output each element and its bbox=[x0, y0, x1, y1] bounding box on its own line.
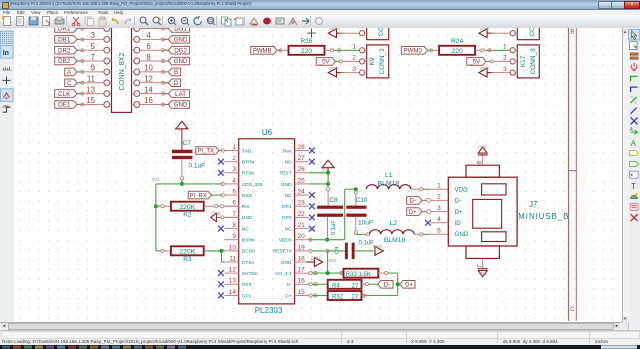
capacitor C10 bbox=[346, 206, 366, 209]
global label D- bbox=[378, 281, 393, 289]
capacitor C7 bbox=[172, 150, 193, 154]
wire from CONN_8X2 pin 12 to label D bbox=[140, 82, 169, 84]
K9 pin 2 circle bbox=[360, 59, 365, 64]
power symbol 3V3 (above C7) bbox=[176, 121, 188, 129]
CONN_8X2 pin 14 circle bbox=[134, 91, 140, 97]
J7 top tab bbox=[466, 165, 499, 177]
U6 left pin 10 (DCDn) bbox=[225, 250, 239, 252]
wire from label DR2 to CONN_8X2 pin 5 bbox=[77, 49, 104, 51]
ground symbol at K17 pin3 bbox=[479, 68, 487, 77]
wire from CONN_8X2 pin 2 to label DG1 bbox=[140, 28, 169, 30]
no-connect X at J7 pin4 ID bbox=[425, 220, 431, 226]
capacitor C8 bbox=[317, 206, 343, 209]
connector K17 CONN_3 body bbox=[517, 45, 539, 78]
junction pin17 / rail bbox=[326, 271, 330, 275]
global label D- at J7 pin2 bbox=[407, 197, 422, 205]
wire PWMB to R16 bbox=[277, 49, 281, 51]
J7 inner pad bottom bbox=[482, 232, 506, 242]
ground symbol at K16 pin3 bbox=[479, 29, 487, 38]
global label GND bbox=[168, 57, 189, 65]
U6 left pin 11 (CTSn) bbox=[225, 261, 239, 263]
J7 pin 3 D+ bbox=[430, 211, 448, 213]
CONN_8X2 pin 10 circle bbox=[134, 69, 140, 75]
power symbol 3V3 (at U6 pin26 TEST) bbox=[322, 160, 334, 168]
wire R4 to label D- bbox=[362, 283, 366, 285]
global label C bbox=[65, 79, 77, 87]
wire from CONN_8X2 pin 14 to label LAT bbox=[140, 93, 169, 95]
K17 pin 1 circle bbox=[510, 48, 515, 53]
wire U6 pin20 VDD5 to rail bbox=[309, 239, 345, 241]
menu bar bbox=[0, 10, 640, 16]
window title bar bbox=[0, 0, 640, 10]
U6 right pin 16 (D-) bbox=[295, 283, 309, 285]
U6 left pin 3 (RTSn) bbox=[225, 172, 239, 174]
U6 right pin 20 (VDD5) bbox=[295, 239, 309, 241]
op-amp U6 PL2303 body bbox=[239, 139, 295, 304]
J7 inner shell bbox=[473, 199, 502, 228]
U6 right pin 22 (GP0) bbox=[295, 216, 309, 218]
svg-text:A: A bbox=[631, 139, 637, 148]
U6 right pin 24 (NC) bbox=[295, 194, 309, 196]
resistor R16 220 bbox=[289, 46, 325, 55]
U6 right pin 21 (NC) bbox=[295, 228, 309, 230]
global label A bbox=[65, 68, 77, 76]
CONN_8X2 pin 9 circle bbox=[104, 69, 110, 75]
U6 left pin 2 (DTRn) bbox=[225, 161, 239, 163]
U6 left pin 14 (GP2) bbox=[225, 295, 239, 297]
svg-text:T: T bbox=[631, 182, 636, 191]
wire from CONN_8X2 pin 16 to label GND bbox=[140, 104, 169, 106]
vertical scrollbar bbox=[622, 28, 630, 322]
CONN_8X2 pin 1 circle bbox=[104, 26, 110, 32]
U6 left pin 5 (RXD) bbox=[225, 194, 239, 196]
wire 3V3 rail to U6 pin4 bbox=[156, 183, 223, 185]
resistor R33 1.5K bbox=[340, 272, 343, 275]
connector J7 MINIUSB_B body bbox=[448, 177, 517, 246]
global label _5V at K9 pin2 bbox=[316, 58, 335, 66]
junction at C8 bottom / pin20 rail bbox=[325, 238, 329, 242]
CONN_8X2 pin 16 circle bbox=[134, 102, 140, 108]
U6 left pin 8 (NC) bbox=[225, 228, 239, 230]
K17 pin 3 circle bbox=[510, 70, 515, 75]
U6 right pin 23 (GP1) bbox=[295, 205, 309, 207]
CONN_8X2 pin 13 circle bbox=[104, 91, 110, 97]
global label OE1 bbox=[55, 101, 77, 109]
U6 right pin 18 (GND) bbox=[295, 261, 309, 263]
wire R32 to D+ node bbox=[362, 295, 366, 297]
wire U6 pin25 to 3V3 rail bbox=[309, 183, 328, 185]
J7 inner pad top bbox=[482, 184, 506, 195]
global label GND bbox=[168, 36, 189, 44]
ground symbol at U6 pin7 bbox=[224, 216, 239, 218]
J7 pin 4 ID bbox=[430, 222, 448, 224]
wire rail corner up to L1 row bbox=[344, 189, 346, 240]
ground symbol at K8 pin3 bbox=[328, 29, 336, 38]
resistor R3 220K bbox=[156, 250, 161, 252]
wire R33 right to D+ node bbox=[378, 272, 384, 274]
K9 pin 3 circle bbox=[360, 70, 365, 75]
no-connect X on U6 pins 2,3,8,12,13,14 bbox=[218, 159, 224, 165]
wire R16 to K9 pin1 bbox=[325, 49, 331, 51]
wire L1 to J7 pin1 VDD bbox=[411, 188, 420, 190]
global label PI_RX bbox=[188, 191, 211, 199]
CONN_8X2 pin 11 circle bbox=[104, 80, 110, 86]
CONN_8X2 pin 8 circle bbox=[134, 58, 140, 64]
global label GND bbox=[168, 101, 189, 109]
connector J? CONN_8X2 body bbox=[112, 22, 132, 112]
toolbar bbox=[0, 15, 640, 29]
U6 right pin 27 (NC) bbox=[295, 161, 309, 163]
global label LAT bbox=[168, 90, 189, 98]
sheet frame border bbox=[568, 24, 570, 321]
ground symbol at K9 pin3 bbox=[328, 68, 336, 77]
wire from label OE1 to CONN_8X2 pin 15 bbox=[77, 104, 104, 106]
J7 pin6 shield to ground bbox=[482, 155, 484, 165]
CONN_8X2 pin 15 circle bbox=[104, 102, 110, 108]
wire U6 pin17 VO_3.3 to R33 bbox=[309, 272, 312, 275]
wire from CONN_8X2 pin 6 to label DG2 bbox=[140, 49, 169, 51]
U6 left pin 6 (RIn) bbox=[225, 205, 239, 207]
right toolbar strip bbox=[628, 28, 640, 330]
resistor R2 220K bbox=[156, 205, 161, 207]
CONN_8X2 pin 2 circle bbox=[134, 26, 140, 32]
wire from label CLK to CONN_8X2 pin 13 bbox=[77, 93, 104, 95]
resistor R24 220 bbox=[439, 46, 475, 55]
status bar bbox=[0, 330, 640, 346]
CONN_8X2 pin 4 circle bbox=[134, 37, 140, 43]
CONN_8X2 pin 3 circle bbox=[104, 37, 110, 43]
left toolbar strip bbox=[0, 28, 15, 322]
wire from label DR1 to CONN_8X2 pin 1 bbox=[77, 28, 104, 30]
inductor L2 BLM18 bbox=[366, 233, 369, 236]
K17 pin 2 circle bbox=[510, 59, 515, 64]
wire ground to K8 pin3 bbox=[341, 32, 345, 34]
CONN_8X2 pin 5 circle bbox=[104, 47, 110, 53]
global label PWM0 bbox=[401, 47, 427, 55]
wire 3V3 rail down to C8 bbox=[327, 173, 329, 184]
K8 pin 3 circle bbox=[360, 31, 365, 36]
wire R2 to U6 pin6 bbox=[204, 205, 215, 207]
junction 3V3 rail at R2 bbox=[154, 204, 158, 208]
resistor R32 27 bbox=[309, 294, 312, 297]
CONN_8X2 pin 6 circle bbox=[134, 47, 140, 53]
connector K16 CONN_3 body (cut at top) bbox=[517, 10, 539, 40]
U6 right pin 28 (Rev) bbox=[295, 150, 309, 152]
wire from label DB1 to CONN_8X2 pin 3 bbox=[77, 38, 104, 40]
wire C7 bottom to 3V3 rail bbox=[181, 159, 183, 176]
wire ground to K16 pin3 bbox=[491, 32, 495, 34]
wire L2 to J7 pin5 GND bbox=[414, 233, 419, 235]
ground symbol at C9 bbox=[355, 250, 374, 252]
wire junction down to C10 bbox=[354, 191, 357, 194]
global label CLK bbox=[55, 90, 77, 98]
wire _5V to K17 pin2 bbox=[486, 60, 491, 62]
connector K9 CONN_3 body bbox=[367, 45, 389, 78]
capacitor C9 0.1uF bbox=[345, 243, 348, 260]
wire from CONN_8X2 pin 8 to label GND bbox=[140, 60, 169, 62]
global label DB1 bbox=[55, 36, 77, 44]
global label DB2 bbox=[55, 57, 77, 65]
global label D+ (at R33/R32 node) bbox=[400, 281, 415, 289]
wire R3 to U6 pins 10 and 11 bbox=[204, 250, 222, 252]
wire from CONN_8X2 pin 10 to label B bbox=[140, 71, 169, 73]
connector K8 CONN_3 body (cut at top) bbox=[367, 10, 389, 40]
svg-text:JM: JM bbox=[3, 104, 9, 109]
U6 left pin 7 (GND) bbox=[225, 216, 239, 218]
J7 bottom tab bbox=[466, 246, 499, 258]
junction at D+ node bbox=[396, 282, 400, 286]
J7 pin 2 D- bbox=[430, 199, 448, 201]
wire U6 pin26 to 3V3 rail bbox=[309, 172, 328, 174]
no-connect X on U6 pins 28,27,24,23,22,21 bbox=[309, 148, 315, 154]
wire PWM0 to R24 bbox=[428, 49, 432, 51]
wire from label DB2 to CONN_8X2 pin 7 bbox=[77, 60, 104, 62]
global label PI_TX bbox=[196, 147, 219, 155]
U6 right pin 19 (RESETn) bbox=[295, 250, 309, 252]
wire C10 bottom to L2 bbox=[355, 217, 357, 231]
horizontal scrollbar bbox=[0, 322, 622, 330]
U6 left pin 4 (VDD_325) bbox=[225, 183, 239, 185]
CONN_8X2 pin 12 circle bbox=[134, 80, 140, 86]
wire U6 pin19 RESETn to C9 bbox=[309, 249, 312, 252]
CONN_8X2 pin 7 circle bbox=[104, 58, 110, 64]
wire from label C to CONN_8X2 pin 11 bbox=[77, 82, 104, 84]
junction at C7 / pin4 rail bbox=[180, 182, 184, 186]
K9 pin 1 circle bbox=[360, 48, 365, 53]
wire _5V to K9 pin2 bbox=[336, 60, 341, 62]
resistor R4 27 bbox=[309, 283, 312, 286]
global label B bbox=[168, 68, 180, 76]
wire from label A to CONN_8X2 pin 9 bbox=[77, 71, 104, 73]
U6 left pin 1 (TXD) bbox=[225, 150, 239, 152]
global label DG1 bbox=[168, 25, 189, 33]
windows taskbar bbox=[0, 345, 640, 349]
U6 right pin 15 (D+) bbox=[295, 295, 309, 297]
U6 right pin 17 (VO_3.3) bbox=[295, 272, 309, 274]
svg-text:In: In bbox=[3, 50, 9, 57]
global label PWMB bbox=[251, 47, 277, 55]
global label DR1 bbox=[55, 25, 77, 33]
U6 left pin 9 (DSRn) bbox=[225, 239, 239, 241]
junction at C10 top / L1 bbox=[354, 187, 358, 191]
inductor L1 BLM18 bbox=[366, 185, 411, 190]
cursor crosshair bbox=[307, 29, 316, 38]
junction pin19 rail bbox=[327, 251, 329, 273]
wire R24 to K17 pin1 bbox=[475, 49, 481, 51]
J7 pin7 shield to ground bbox=[482, 258, 484, 268]
U6 left pin 12 (SHTDn) bbox=[225, 272, 239, 274]
global label D+ at J7 pin3 bbox=[407, 208, 422, 216]
wire 3V3 rail vertical down to R2/R3 bbox=[155, 184, 157, 251]
wire from CONN_8X2 pin 4 to label GND bbox=[140, 38, 169, 40]
wire PI_RX to U6 pin5 bbox=[212, 194, 223, 196]
U6 right pin 26 (TEST) bbox=[295, 172, 309, 174]
U6 left pin 13 (GP3) bbox=[225, 283, 239, 285]
wire C8 bottom to VDD5 rail bbox=[327, 217, 329, 239]
global label DR2 bbox=[55, 46, 77, 54]
ground symbol at U6 pin18 bbox=[295, 261, 307, 263]
global label _5V at K17 pin2 bbox=[467, 58, 486, 66]
global label DG2 bbox=[168, 46, 189, 54]
global label D bbox=[168, 79, 180, 87]
K16 pin 3 circle bbox=[510, 31, 515, 36]
U6 right pin 25 (GND) bbox=[295, 183, 309, 185]
wire PI_TX to U6 pin1 bbox=[219, 150, 222, 152]
